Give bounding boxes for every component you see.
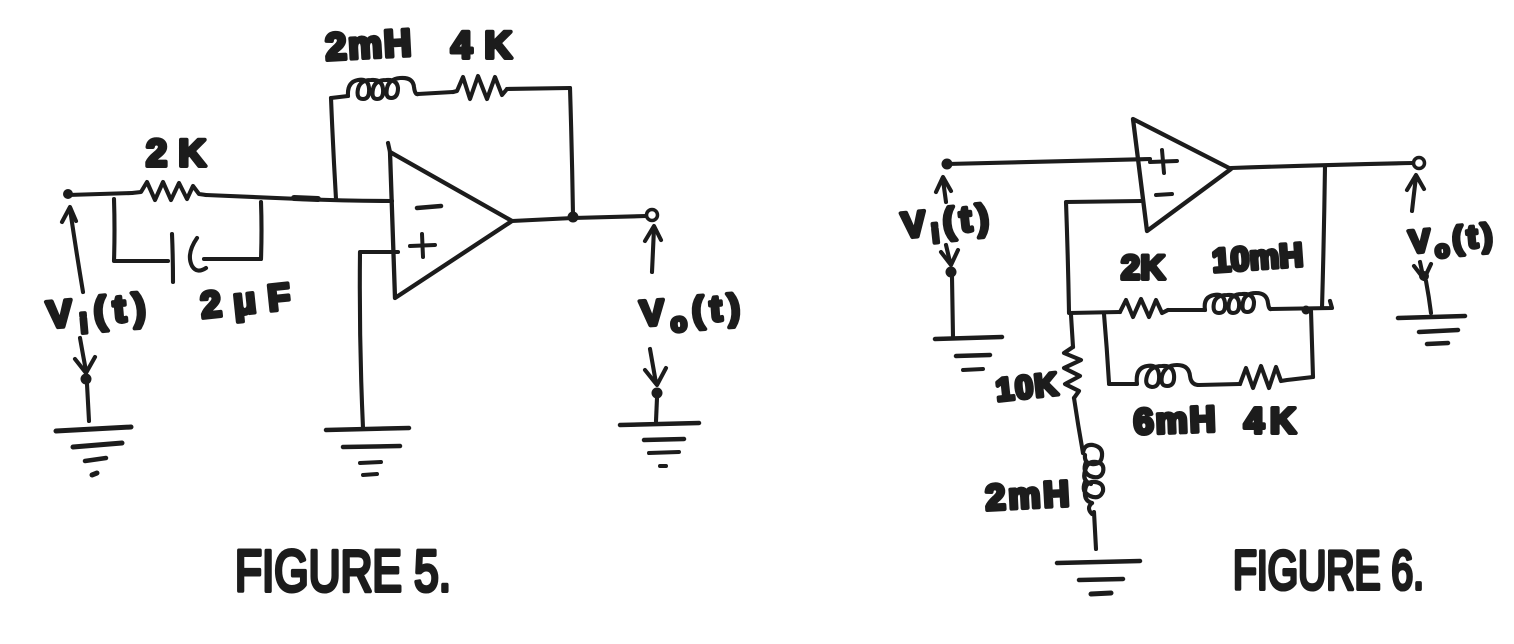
wire (Fig5 feedback, right vertical down to output) [570, 88, 573, 215]
ground (Fig5 output) [620, 423, 699, 466]
wire (Fig6 between 10K and 2mH) [1074, 398, 1083, 453]
svg-text:FIGURE 6.: FIGURE 6. [1233, 539, 1424, 601]
wire (Fig6 node B down to 10K) [1071, 315, 1073, 347]
svg-text:4K: 4K [1244, 400, 1296, 441]
node (Fig5 output lower node) [652, 388, 663, 399]
wire (Fig6 output node to ground) [1426, 281, 1431, 313]
ground (Fig6 input) [935, 337, 1002, 370]
node (Fig5 output junction) [568, 212, 579, 223]
node (Fig6 lower input node) [946, 267, 957, 278]
node (Fig5 lower input node) [81, 374, 92, 385]
inductor 6mH (Fig6 feedback bottom branch) [1109, 365, 1199, 387]
wire (Fig6 top branch, right lead) [1271, 301, 1332, 309]
label 2K (Fig6) [1121, 249, 1165, 287]
wire (Fig5 input node to resistor) [68, 193, 132, 195]
label 10mH (Fig6) [1211, 236, 1304, 279]
svg-text:2K: 2K [146, 133, 207, 175]
label Vi(t) (Fig5) [45, 286, 155, 342]
label 4K (Fig6) [1244, 400, 1296, 441]
resistor 2K (Fig5 series input) [132, 182, 206, 200]
label 2mH (Fig5) [324, 23, 412, 69]
label 2uF (Fig5) [199, 276, 293, 326]
label plus (U2 non-inverting input) [1150, 150, 1177, 173]
inductor 2mH (Fig6, vertical) [1083, 445, 1103, 514]
label Vi(t) (Fig6) [900, 196, 997, 252]
svg-text:Vo(t): Vo(t) [1407, 216, 1498, 264]
wire (Fig6 output down to feedback right) [1322, 166, 1325, 308]
wire (Fig6 top branch, between 2K and 10mH) [1168, 308, 1205, 312]
inductor L1 2mH (Fig5 feedback) [348, 78, 418, 99]
resistor 10K (Fig6, vertical) [1064, 347, 1081, 398]
label minus (U1 inverting input) [417, 206, 441, 208]
wire (U2 output) [1231, 163, 1413, 168]
arrow (Fig6 output, pointing down to node) [1414, 262, 1431, 279]
label 6mH (Fig6) [1133, 398, 1216, 442]
resistor 2K (Fig6 feedback top branch) [1120, 299, 1168, 317]
resistor 4K (Fig6 feedback bottom branch) [1240, 366, 1313, 388]
wire (U1 output) [512, 216, 646, 221]
svg-text:2mH: 2mH [984, 473, 1070, 518]
ground (Fig5 input) [56, 427, 131, 475]
svg-text:4K: 4K [451, 25, 513, 67]
label Vo(t) (Fig5) [639, 286, 748, 340]
label FIGURE 5. [235, 539, 451, 604]
wire (Fig6 top branch, left lead) [1069, 312, 1120, 313]
svg-text:2μF: 2μF [199, 276, 293, 326]
node (Fig5 output terminal, open circle) [647, 210, 658, 221]
op-amp U1 (Fig5) [388, 143, 512, 298]
wire (Fig5 capacitor branch, right side and up) [204, 202, 262, 259]
resistor 4K (Fig5 feedback) [453, 76, 507, 99]
inductor 10mH (Fig6 feedback top branch) [1205, 293, 1271, 313]
arrow (Fig6 output, pointing up to terminal) [1407, 175, 1424, 211]
arrow (Fig5 input, pointing up to node) [62, 207, 83, 292]
ground (Fig6 bottom) [1057, 561, 1140, 594]
svg-text:Vo(t): Vo(t) [639, 286, 748, 340]
arrow (Fig6 input, pointing up to node) [936, 177, 951, 202]
op-amp U2 (Fig6) [1133, 119, 1231, 231]
node A (Fig5 input node) [63, 189, 73, 199]
svg-text:Vi(t): Vi(t) [900, 196, 997, 252]
svg-text:2K: 2K [1121, 249, 1165, 287]
wire (Fig5 resistor to op-amp inverting input) [206, 195, 392, 201]
label minus (U2 inverting input) [1156, 194, 1172, 195]
wire (Fig6 input node to op-amp + input) [947, 159, 1150, 164]
label 10K (Fig6) [994, 366, 1059, 408]
wire (U1 + input to ground drop) [360, 252, 398, 428]
node (Fig6 input node) [942, 159, 953, 170]
label 2mH (Fig6) [984, 473, 1070, 518]
wire (U2 - input going left and down to node B) [1066, 201, 1141, 312]
ground (Fig5 op-amp) [326, 428, 409, 475]
svg-text:2mH: 2mH [324, 23, 412, 69]
wire (Fig5 feedback, left vertical) [331, 98, 336, 199]
wire (Fig6 bottom branch, left drop) [1104, 314, 1109, 383]
node B (Fig6 feedback left node) [1069, 312, 1071, 314]
svg-text:10mH: 10mH [1211, 236, 1304, 279]
arrow (Fig5 output, pointing down to ground node) [645, 349, 666, 385]
capacitor C1 2uF (Fig5, parallel with 2K) [172, 234, 206, 282]
wire (Fig5 node to ground) [87, 384, 89, 421]
svg-text:6mH: 6mH [1133, 398, 1216, 442]
node (Fig6 output lower node) [1419, 271, 1429, 281]
label 4K (Fig5) [451, 25, 513, 67]
svg-text:Vi(t): Vi(t) [45, 286, 155, 342]
label FIGURE 6. [1233, 539, 1424, 601]
arrow (Fig5 output, pointing up to terminal) [645, 226, 661, 272]
node (Fig6 output terminal, open circle) [1414, 158, 1425, 169]
svg-text:10K: 10K [994, 366, 1059, 408]
label 2K (Fig5) [146, 133, 207, 175]
wire (Fig5 capacitor branch, left drop) [114, 199, 168, 261]
label Vo(t) (Fig6) [1407, 216, 1498, 264]
node (Fig6 feedback right junction) [1302, 306, 1311, 315]
label plus (U1 non-inverting input) [410, 234, 435, 257]
wire (Fig5 feedback, between inductor and resistor) [418, 92, 453, 94]
wire (Fig6 bottom branch, right rise) [1311, 311, 1313, 377]
arrow (Fig6 input, pointing down to node) [941, 245, 958, 265]
wire (Fig5 feedback top, left lead) [331, 96, 348, 98]
arrow (Fig5 input, pointing down to ground node) [75, 338, 95, 373]
wire (Fig6 input node to ground) [952, 277, 953, 337]
wire (Fig6 bottom branch, between 6mH and 4K) [1199, 384, 1240, 385]
wire (Fig6 2mH to ground) [1094, 512, 1096, 549]
svg-text:FIGURE 5.: FIGURE 5. [235, 539, 451, 604]
wire (Fig5 feedback top, right lead) [507, 88, 570, 89]
ground (Fig6 output) [1398, 316, 1465, 344]
wire (Fig5 output node to ground) [656, 398, 657, 421]
